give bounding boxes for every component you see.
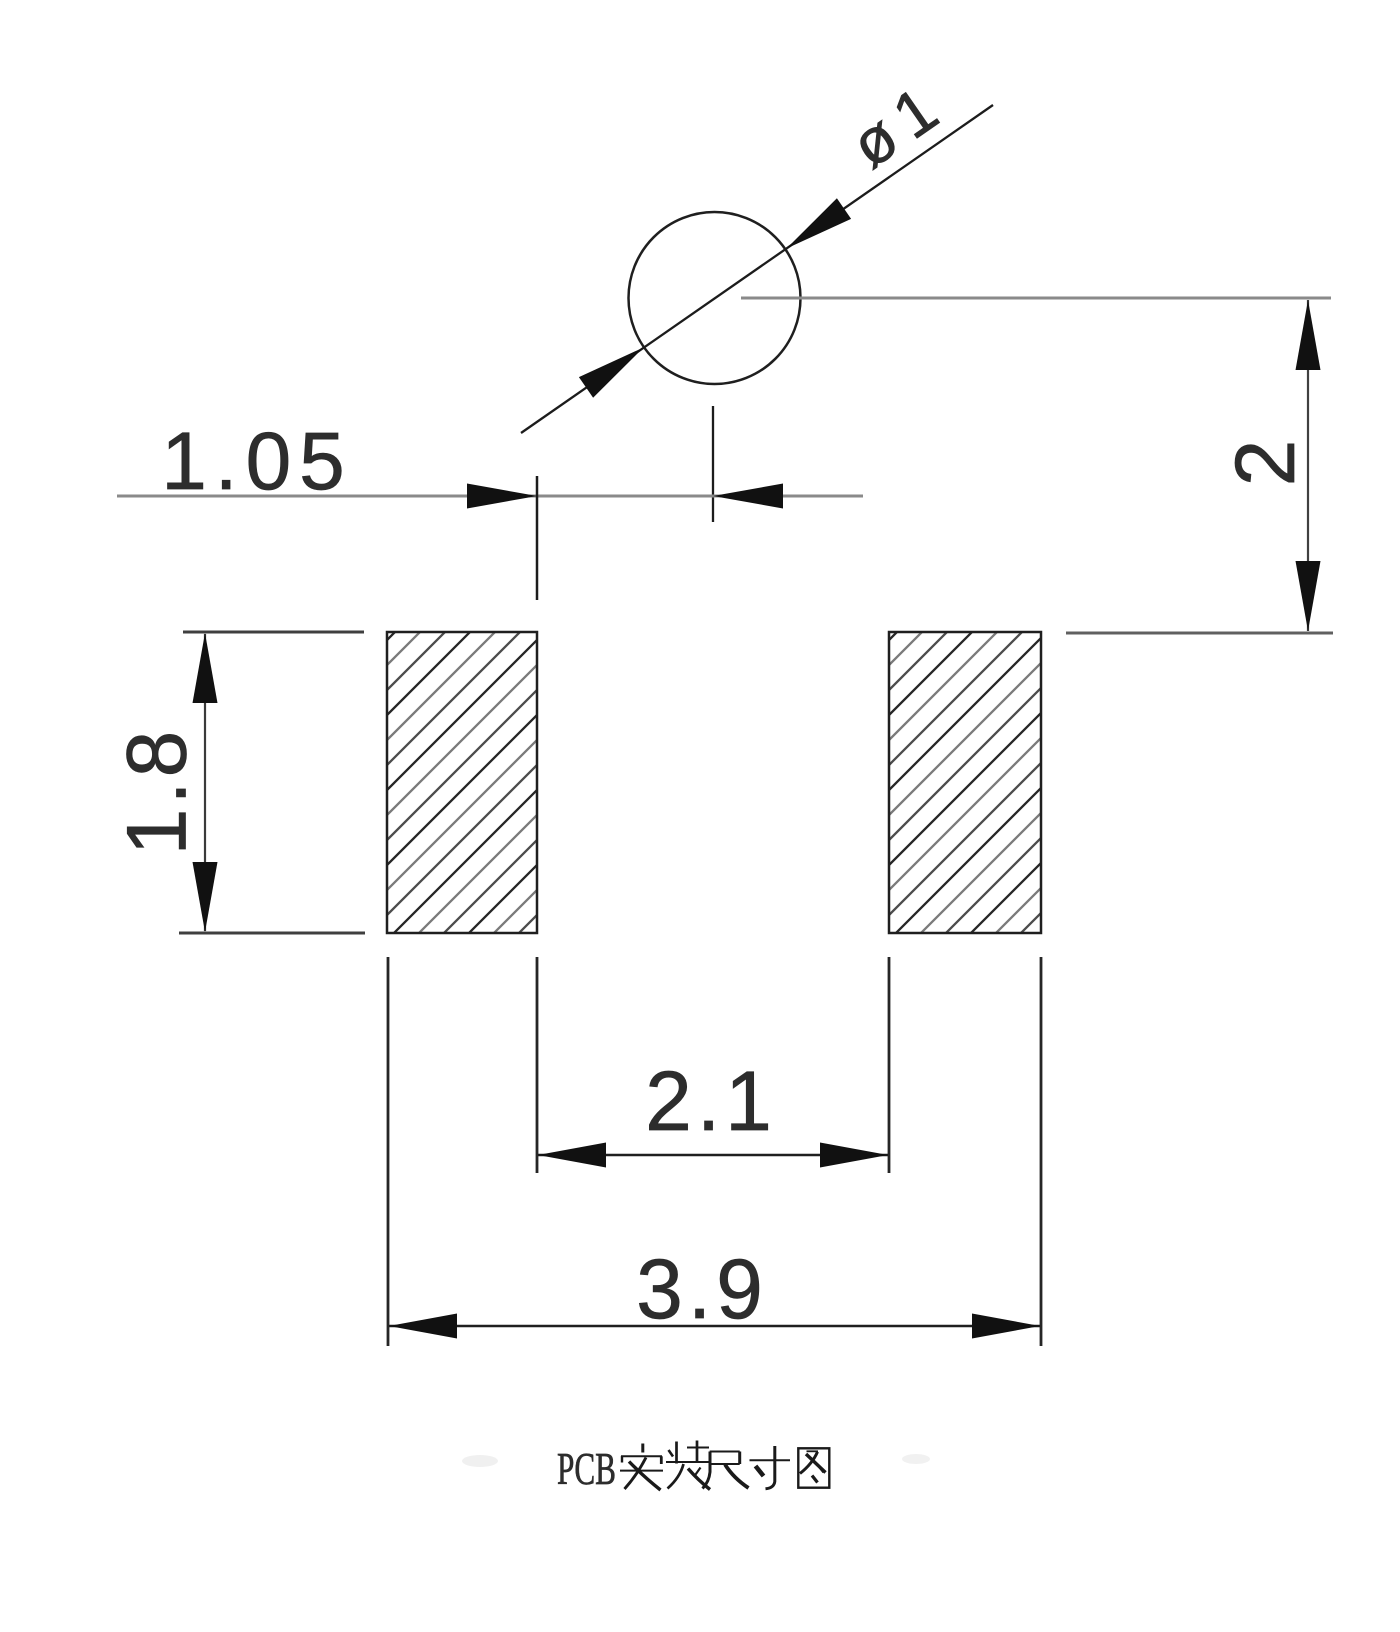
svg-text:2: 2 (1218, 440, 1312, 487)
svg-text:1.8: 1.8 (110, 727, 204, 856)
svg-text:2.1: 2.1 (645, 1054, 777, 1148)
svg-text:3.9: 3.9 (636, 1242, 768, 1336)
svg-text:1.05: 1.05 (161, 416, 353, 507)
svg-text:PCB: PCB (557, 1443, 616, 1494)
